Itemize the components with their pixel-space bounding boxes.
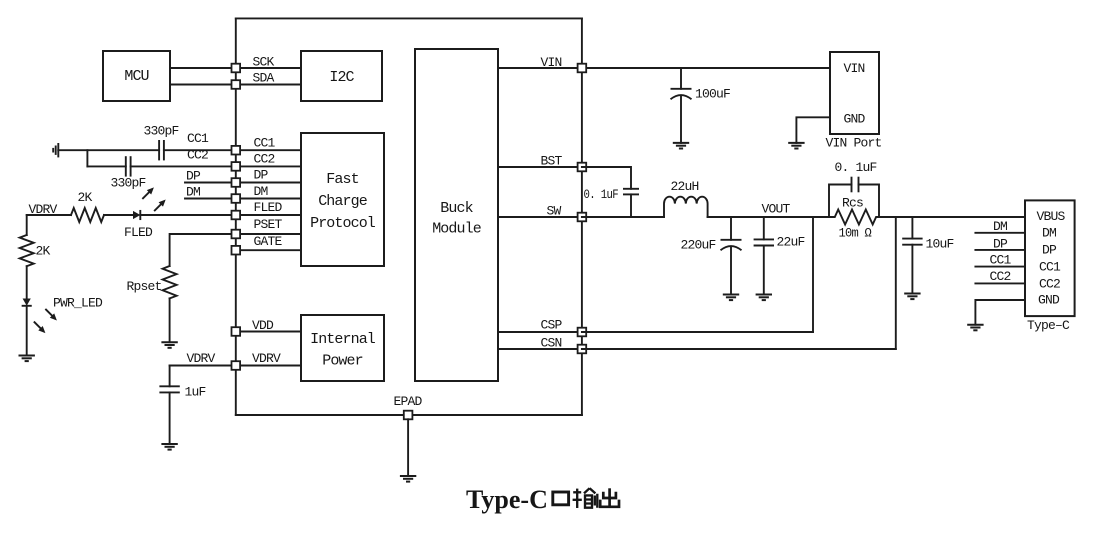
capacitor 0.1uF bootstrap	[623, 189, 639, 195]
wire PWR LED to ground	[26, 306, 28, 356]
svg-text:CSN: CSN	[541, 336, 562, 351]
svg-text:GND: GND	[1038, 293, 1060, 308]
wire CSN buck to bus	[498, 348, 582, 350]
wire PSET bus to chip	[236, 233, 301, 235]
svg-text:0. 1uF: 0. 1uF	[835, 160, 877, 175]
ground: CC1 coupling (rotated earth)	[53, 143, 58, 157]
svg-text:2K: 2K	[78, 190, 93, 205]
wire Rcs parallel cap loop	[829, 185, 852, 218]
wire: right pin bus vertical	[581, 18, 583, 415]
wire CC2 bus to chip	[236, 165, 301, 167]
block Type-C port	[1025, 200, 1075, 316]
capacitor 330pF on CC2	[126, 156, 131, 176]
svg-text:DP: DP	[254, 168, 269, 183]
wire GND Type-C	[975, 300, 1025, 325]
ground: 22uF	[756, 295, 772, 301]
svg-text:VDD: VDD	[252, 318, 274, 333]
wire VDRV left vertical	[26, 215, 28, 235]
svg-text:10uF: 10uF	[926, 236, 954, 251]
title hanzi chu (of shuchu=output)	[600, 488, 619, 507]
svg-text:330pF: 330pF	[111, 176, 146, 191]
ground: EPAD	[400, 476, 416, 482]
pin CC2	[232, 162, 241, 171]
wire DM bus to chip	[236, 198, 301, 200]
wire 100uF to ground	[680, 97, 682, 143]
wire VIN bus to VIN Port	[582, 67, 830, 69]
svg-text:DM: DM	[186, 185, 200, 200]
wire CSN sense vertical	[895, 217, 897, 349]
wire 100uF stem	[680, 68, 682, 89]
wire CC1 stub Type-C	[975, 266, 1025, 268]
wire DM stub Type-C	[975, 232, 1025, 234]
svg-text:VIN: VIN	[844, 61, 865, 76]
wire 22uF stem	[763, 217, 765, 239]
ground: VIN Port	[788, 143, 804, 149]
wire CC2 cap to bus	[131, 165, 236, 167]
svg-text:DM: DM	[1042, 226, 1056, 241]
wire VOUT rail	[708, 216, 829, 218]
ground: PWR_LED	[19, 356, 35, 362]
wire CSN bus to sense point	[582, 348, 896, 350]
pin DP	[232, 178, 241, 187]
resistor Rcs	[829, 210, 879, 225]
pin EPAD	[404, 411, 413, 420]
block I2C	[301, 51, 382, 101]
svg-text:VDRV: VDRV	[252, 351, 281, 366]
wire bootstrap cap to SW	[630, 194, 632, 217]
svg-text:Protocol: Protocol	[310, 215, 376, 232]
svg-text:GND: GND	[844, 112, 866, 127]
wire DM stub	[185, 198, 236, 200]
pin CSP	[578, 328, 587, 337]
ground: Rpset	[161, 342, 177, 348]
svg-text:Buck: Buck	[440, 200, 473, 217]
block Internal Power	[301, 315, 384, 381]
diode FLED	[133, 211, 140, 219]
wire: bottom ground/EPAD rail	[236, 414, 582, 416]
wire BST buck to bus	[498, 166, 582, 168]
svg-text:BST: BST	[541, 154, 563, 169]
pin PSET	[232, 230, 241, 239]
wire FLED diode to bus	[140, 214, 236, 216]
svg-text:VBUS: VBUS	[1037, 209, 1066, 224]
svg-text:CC2: CC2	[990, 269, 1011, 284]
capacitor 22uF	[754, 239, 774, 245]
svg-text:Fast: Fast	[326, 171, 358, 188]
capacitor 1uF	[159, 386, 179, 392]
svg-text:22uH: 22uH	[671, 179, 699, 194]
wire CC2 net left	[87, 165, 125, 167]
block Fast Charge Protocol	[301, 133, 384, 266]
wire VBUS rail to Type-C	[879, 216, 1025, 218]
svg-text:VOUT: VOUT	[762, 202, 791, 217]
svg-text:220uF: 220uF	[681, 237, 716, 252]
wire DP stub Type-C	[975, 249, 1025, 251]
wire CC1 net left	[58, 149, 159, 151]
inductor 22uH	[664, 197, 708, 217]
svg-text:DP: DP	[186, 168, 201, 183]
wire 220uF stem	[730, 217, 732, 240]
pin BST	[578, 163, 587, 172]
ground: 10uF	[904, 294, 920, 300]
svg-text:Internal: Internal	[310, 331, 376, 348]
svg-text:FLED: FLED	[254, 200, 283, 215]
svg-text:CC2: CC2	[187, 147, 208, 162]
svg-text:GATE: GATE	[254, 234, 283, 249]
wire SCK: MCU to I2C	[170, 67, 301, 69]
wire CC1 cap to bus	[164, 149, 236, 151]
pin SDA	[232, 80, 241, 89]
pin SW	[578, 213, 587, 222]
block Buck Module	[415, 49, 498, 381]
capacitor 100uF polarized	[671, 89, 692, 100]
wire SW buck to bus	[498, 216, 582, 218]
wire 10uF to ground	[911, 245, 913, 294]
pin VDD	[232, 327, 241, 336]
svg-text:EPAD: EPAD	[394, 394, 423, 409]
capacitor 220uF polarized	[721, 240, 742, 251]
svg-text:100uF: 100uF	[695, 87, 730, 102]
pin FLED	[232, 211, 241, 220]
pin DM	[232, 194, 241, 203]
block MCU	[103, 51, 170, 101]
LED emission arrows PWR_LED	[35, 310, 57, 334]
wire VDD bus to chip	[236, 331, 301, 333]
wire VIN buck to bus	[498, 67, 582, 69]
wire BST to bootstrap cap	[582, 167, 631, 189]
svg-text:DP: DP	[993, 236, 1008, 251]
wire 10uF stem	[911, 217, 913, 239]
pin SCK	[232, 64, 241, 73]
svg-text:DM: DM	[254, 184, 268, 199]
svg-text:FLED: FLED	[124, 225, 153, 240]
svg-text:22uF: 22uF	[777, 234, 805, 249]
wire EPAD to ground	[407, 419, 409, 476]
svg-text:Type–C: Type–C	[1027, 318, 1070, 333]
wire VDRV left to bus	[170, 365, 236, 367]
wire VDRV bus to chip	[236, 365, 301, 367]
svg-text:MCU: MCU	[124, 68, 148, 85]
svg-text:DP: DP	[1042, 243, 1057, 258]
ground: 1uF	[161, 444, 177, 450]
wire CC2 branch vertical	[86, 150, 88, 166]
capacitor 330pF on CC1	[159, 140, 164, 160]
wire cap loop right side	[859, 185, 880, 218]
wire CC1 bus to chip	[236, 149, 301, 151]
svg-text:0. 1uF: 0. 1uF	[584, 187, 619, 202]
resistor 2K vertical	[20, 235, 34, 266]
wire GND of VIN Port	[796, 117, 830, 143]
svg-text:1uF: 1uF	[185, 385, 206, 400]
ground: Type-C	[967, 325, 983, 331]
pin CC1	[232, 146, 241, 155]
wire CSP bus to sense point	[582, 331, 813, 333]
wire FLED net left segment	[27, 214, 71, 216]
wire 2K to PWR LED	[26, 266, 28, 298]
pin CSN	[578, 345, 587, 354]
svg-text:CSP: CSP	[541, 318, 563, 333]
wire DP bus to chip	[236, 182, 301, 184]
svg-text:Rcs: Rcs	[842, 195, 863, 210]
wire 22uF to ground	[763, 246, 765, 295]
svg-text:I2C: I2C	[329, 69, 354, 86]
wire: top bus VIN rail	[236, 17, 582, 19]
wire PSET net to Rpset	[170, 234, 236, 266]
LED PWR_LED	[23, 299, 31, 306]
resistor 2K horizontal	[71, 208, 104, 222]
svg-text:CC1: CC1	[187, 131, 209, 146]
wire GATE bus to chip	[236, 249, 301, 251]
svg-text:PWR_LED: PWR_LED	[53, 296, 103, 311]
svg-text:CC2: CC2	[254, 152, 275, 167]
pin GATE	[232, 246, 241, 255]
svg-text:Charge: Charge	[318, 193, 368, 210]
svg-text:330pF: 330pF	[144, 123, 179, 138]
pin VDRV	[232, 361, 241, 370]
LED emission arrows FLED	[143, 187, 166, 210]
wire CSP buck to bus	[498, 331, 582, 333]
svg-text:CC1: CC1	[254, 136, 276, 151]
wire Rpset to ground	[169, 298, 171, 342]
svg-text:DM: DM	[993, 219, 1007, 234]
svg-text:CC2: CC2	[1039, 276, 1060, 291]
svg-text:Module: Module	[432, 221, 482, 238]
svg-text:VIN Port: VIN Port	[826, 136, 882, 151]
wire 1uF stem top	[169, 366, 171, 387]
svg-text:Power: Power	[322, 353, 363, 370]
wire SDA: MCU to I2C	[170, 84, 301, 86]
wire: left pin bus vertical	[235, 18, 237, 415]
svg-text:SDA: SDA	[253, 71, 275, 86]
svg-text:CC1: CC1	[990, 252, 1012, 267]
svg-text:Rpset: Rpset	[127, 279, 162, 294]
wire FLED resistor to diode	[104, 214, 133, 216]
capacitor 10uF	[902, 239, 922, 245]
title hanzi kou (mouth/port)	[553, 492, 569, 505]
svg-text:VDRV: VDRV	[187, 351, 216, 366]
svg-text:SCK: SCK	[253, 55, 275, 70]
capacitor 0.1uF across Rcs	[852, 177, 859, 193]
svg-text:VIN: VIN	[541, 55, 562, 70]
svg-text:CC1: CC1	[1039, 260, 1061, 275]
wire CSP sense vertical	[812, 217, 814, 332]
wire 1uF to ground	[169, 392, 171, 444]
wire SW to inductor	[582, 216, 664, 218]
title hanzi shu (of shuchu=output)	[573, 488, 598, 508]
pin VIN	[578, 64, 587, 73]
svg-text:2K: 2K	[36, 244, 51, 259]
svg-text:Type-C: Type-C	[466, 485, 548, 514]
wire DP stub	[185, 182, 236, 184]
wire FLED bus to chip	[236, 214, 301, 216]
ground: 100uF	[673, 143, 689, 149]
svg-text:PSET: PSET	[254, 217, 283, 232]
wire CC2 stub Type-C	[975, 282, 1025, 284]
resistor Rpset	[163, 266, 177, 298]
wire 220uF to ground	[730, 248, 732, 295]
block VIN Port	[830, 52, 879, 134]
svg-text:SW: SW	[547, 204, 562, 219]
svg-text:10m Ω: 10m Ω	[839, 225, 872, 240]
ground: 220uF	[723, 295, 739, 301]
